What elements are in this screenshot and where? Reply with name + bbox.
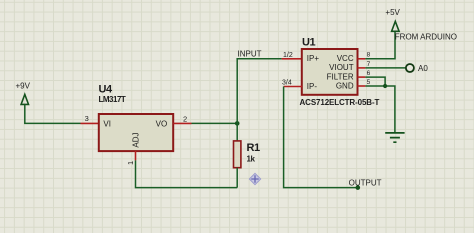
svg-text:VI: VI bbox=[103, 120, 111, 129]
value 1k bbox=[247, 154, 256, 163]
svg-text:OUTPUT: OUTPUT bbox=[349, 179, 382, 188]
pin 7 (U1 VIOUT pin stub) bbox=[358, 67, 366, 69]
U1 pin name IP- bbox=[307, 82, 318, 91]
svg-text:+5V: +5V bbox=[385, 8, 400, 17]
terminal A0 bbox=[406, 64, 414, 72]
resistor R1 body bbox=[234, 141, 241, 168]
svg-text:A0: A0 bbox=[418, 64, 428, 73]
svg-text:VCC: VCC bbox=[337, 54, 354, 63]
svg-text:INPUT: INPUT bbox=[238, 49, 262, 58]
wire VIOUT to A0 bbox=[365, 67, 405, 69]
pin 1/2 (U1 IP+ pin stub) bbox=[282, 58, 302, 60]
label A0 bbox=[418, 64, 428, 73]
wire junction up to INPUT line bbox=[237, 59, 281, 124]
pin 1 (U4 ADJ pin stub) bbox=[135, 151, 137, 160]
ground symbol bbox=[385, 133, 404, 142]
junction at VO node bbox=[235, 121, 240, 126]
wire VCC to +5V bbox=[365, 32, 395, 59]
svg-text:1: 1 bbox=[126, 161, 135, 165]
svg-text:+9V: +9V bbox=[16, 82, 31, 91]
net label INPUT bbox=[238, 49, 262, 58]
net label OUTPUT bbox=[349, 179, 382, 188]
sensor U1 body bbox=[302, 49, 358, 95]
power +5V bbox=[385, 8, 400, 31]
wire U4 VO to junction bbox=[192, 122, 238, 124]
pin 6 (U1 FILTER pin stub) bbox=[358, 76, 366, 78]
svg-text:6: 6 bbox=[367, 70, 371, 77]
svg-text:1k: 1k bbox=[247, 154, 256, 163]
svg-text:5: 5 bbox=[367, 79, 371, 86]
pin number 8 bbox=[367, 52, 371, 59]
pin number 3/4 bbox=[282, 79, 292, 86]
U1 pin name FILTER bbox=[327, 72, 354, 81]
svg-text:IP+: IP+ bbox=[307, 54, 320, 63]
reference U1 bbox=[302, 37, 316, 49]
svg-text:ADJ: ADJ bbox=[132, 132, 141, 147]
wire R1 bottom down bbox=[236, 168, 238, 188]
U1 pin name VIOUT bbox=[329, 63, 354, 72]
pin 2 (U4 VO pin stub) bbox=[173, 122, 191, 124]
wire end node at OUTPUT bbox=[356, 185, 361, 190]
pin number 5 bbox=[367, 79, 371, 86]
svg-text:R1: R1 bbox=[247, 142, 261, 154]
svg-text:2: 2 bbox=[183, 115, 187, 124]
U1 pin name IP+ bbox=[307, 54, 320, 63]
reference U4 bbox=[99, 83, 114, 95]
svg-text:ACS712ELCTR-05B-T: ACS712ELCTR-05B-T bbox=[300, 98, 380, 107]
wire GND pin to junction bbox=[365, 86, 395, 133]
pin number 1 (rotated) bbox=[126, 161, 135, 165]
U1 pin name VCC bbox=[337, 54, 354, 63]
value LM317T bbox=[99, 95, 126, 104]
wire junction down to R1 top bbox=[236, 123, 238, 141]
wire U1 IP- down to OUTPUT bbox=[284, 87, 358, 188]
svg-text:GND: GND bbox=[336, 81, 354, 90]
U4 pin name VI bbox=[103, 120, 111, 129]
svg-text:VIOUT: VIOUT bbox=[329, 63, 354, 72]
U4 pin name VO bbox=[156, 120, 168, 129]
pin number 6 bbox=[367, 70, 371, 77]
origin marker (blue node marker) bbox=[249, 173, 260, 184]
U4 pin name ADJ (rotated) bbox=[132, 132, 141, 147]
svg-text:FROM ARDUINO: FROM ARDUINO bbox=[395, 32, 457, 41]
svg-text:1/2: 1/2 bbox=[283, 52, 293, 59]
net label FROM ARDUINO bbox=[395, 32, 457, 41]
pin 5 (U1 GND pin stub) bbox=[358, 85, 366, 87]
pin 3/4 (U1 IP- pin stub) bbox=[284, 86, 302, 88]
reference R1 bbox=[247, 142, 261, 154]
pin 8 (U1 VCC pin stub) bbox=[358, 58, 366, 60]
pin number 2 bbox=[183, 115, 187, 124]
pin number 7 bbox=[367, 61, 371, 68]
svg-text:U4: U4 bbox=[99, 83, 114, 95]
svg-text:8: 8 bbox=[367, 52, 371, 59]
svg-text:3/4: 3/4 bbox=[282, 79, 292, 86]
svg-text:FILTER: FILTER bbox=[327, 72, 354, 81]
svg-text:U1: U1 bbox=[302, 37, 316, 49]
value ACS712ELCTR-05B-T bbox=[300, 98, 380, 107]
wire R1 bottom to ADJ bbox=[136, 160, 238, 187]
svg-text:3: 3 bbox=[85, 114, 89, 123]
power +9V bbox=[16, 82, 31, 105]
svg-text:VO: VO bbox=[156, 120, 168, 129]
wire FILTER to GND net bbox=[365, 77, 385, 86]
junction at GND net bbox=[383, 84, 387, 88]
svg-text:IP-: IP- bbox=[307, 82, 318, 91]
pin 3 (U4 VI pin stub) bbox=[81, 122, 100, 124]
pin number 3 bbox=[85, 114, 89, 123]
svg-text:LM317T: LM317T bbox=[99, 95, 126, 104]
pin number 1/2 bbox=[283, 52, 293, 59]
wire +9V to U4 VI bbox=[25, 105, 81, 124]
svg-text:7: 7 bbox=[367, 61, 371, 68]
U1 pin name GND bbox=[336, 81, 354, 90]
regulator U4 body bbox=[99, 114, 173, 151]
